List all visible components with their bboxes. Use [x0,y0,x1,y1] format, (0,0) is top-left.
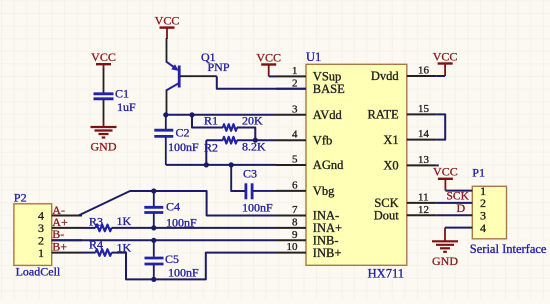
svg-text:R3: R3 [89,215,103,229]
svg-text:Dout: Dout [374,209,400,223]
svg-text:AVdd: AVdd [313,108,343,122]
svg-text:8.2K: 8.2K [242,140,266,154]
svg-text:GND: GND [91,140,117,154]
svg-text:HX711: HX711 [368,266,404,280]
svg-text:Vfb: Vfb [313,133,332,147]
svg-text:1: 1 [38,246,44,260]
svg-text:VCC: VCC [155,13,180,27]
svg-text:X0: X0 [383,159,398,173]
svg-text:RATE: RATE [367,108,399,122]
svg-text:1K: 1K [117,240,132,254]
svg-text:PNP: PNP [208,60,230,74]
svg-text:LoadCell: LoadCell [16,264,61,278]
svg-text:INB+: INB+ [313,246,342,260]
svg-text:U1: U1 [306,50,321,64]
svg-text:10: 10 [287,241,299,253]
svg-text:AGnd: AGnd [313,158,344,172]
svg-text:R4: R4 [89,237,103,251]
svg-text:C1: C1 [115,87,129,101]
svg-text:R1: R1 [204,114,218,128]
svg-text:3: 3 [292,103,298,115]
svg-text:4: 4 [480,221,486,235]
svg-text:C4: C4 [166,200,180,214]
svg-text:4: 4 [292,129,298,141]
svg-text:Vbg: Vbg [313,184,335,198]
svg-text:1: 1 [292,65,298,77]
svg-text:1uF: 1uF [117,100,136,114]
svg-text:C2: C2 [176,126,190,140]
svg-text:20K: 20K [242,114,263,128]
svg-text:D: D [457,201,466,215]
svg-text:7: 7 [292,204,298,216]
svg-text:100nF: 100nF [242,201,273,215]
svg-text:Serial Interface: Serial Interface [470,242,547,256]
svg-text:16: 16 [418,65,430,77]
svg-text:Dvdd: Dvdd [371,69,400,83]
svg-text:5: 5 [292,154,298,166]
svg-text:VCC: VCC [433,165,458,179]
svg-text:100nF: 100nF [168,266,199,280]
svg-text:C3: C3 [243,167,257,181]
svg-text:11: 11 [418,191,429,203]
svg-text:8: 8 [292,216,298,228]
svg-text:VCC: VCC [433,49,458,63]
svg-text:VCC: VCC [256,50,281,64]
svg-text:B+: B+ [52,239,67,253]
svg-text:6: 6 [292,179,298,191]
svg-text:14: 14 [418,128,430,140]
svg-text:100nF: 100nF [168,140,199,154]
svg-text:R2: R2 [204,141,218,155]
svg-text:P1: P1 [472,166,485,180]
svg-text:VCC: VCC [91,50,116,64]
svg-text:13: 13 [418,154,430,166]
svg-text:C5: C5 [165,252,179,266]
svg-text:15: 15 [418,103,430,115]
svg-text:1K: 1K [117,214,132,228]
svg-text:BASE: BASE [313,82,345,96]
svg-text:P2: P2 [14,191,27,205]
svg-text:2: 2 [292,77,298,89]
svg-text:X1: X1 [383,133,398,147]
svg-text:12: 12 [418,204,429,216]
svg-text:9: 9 [292,229,298,241]
svg-text:GND: GND [432,254,458,268]
